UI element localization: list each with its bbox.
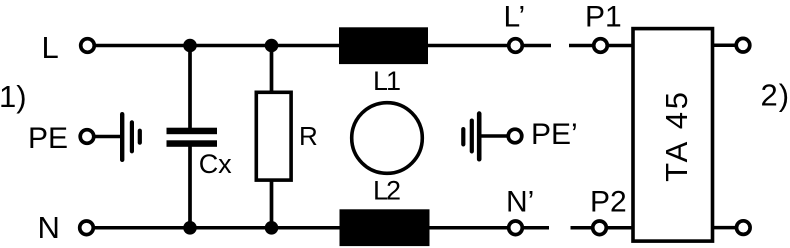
- wire PE' stub: [481, 134, 507, 138]
- terminal L: [81, 39, 95, 53]
- junction N/R: [265, 221, 279, 235]
- wire L line right of L1: [428, 44, 507, 48]
- inductor L2: [340, 209, 430, 246]
- ground PE (chassis, bars decreasing to the right): [120, 112, 142, 162]
- output terminal top: [736, 38, 750, 52]
- svg-text:P2: P2: [590, 186, 627, 219]
- wire P1 stub toward L': [569, 44, 592, 48]
- wire Cx branch lower: [188, 146, 192, 228]
- wire P1 to breaker box: [609, 44, 634, 48]
- circuit breaker TA 45 box: [633, 29, 713, 242]
- wire R branch lower: [270, 180, 274, 228]
- choke core circle: [352, 103, 423, 174]
- inductor L1: [339, 27, 428, 64]
- svg-text:L2: L2: [373, 176, 400, 206]
- wire L line left: [96, 44, 339, 48]
- svg-text:PE: PE: [28, 122, 68, 155]
- terminal PE: [80, 130, 94, 144]
- wire PE stub: [95, 135, 122, 139]
- output terminal bottom: [737, 221, 751, 235]
- resistor R: [256, 92, 291, 180]
- wire P2 stub toward N': [571, 226, 592, 230]
- wire N line right of L2: [429, 226, 507, 230]
- terminal L': [509, 39, 523, 53]
- wire L' stub toward P1: [524, 44, 551, 48]
- wire N' stub toward P2: [524, 226, 549, 230]
- wire breaker box to output top terminal: [712, 43, 735, 47]
- svg-text:TA 45: TA 45: [659, 89, 694, 182]
- svg-text:L: L: [42, 30, 59, 65]
- svg-text:L1: L1: [373, 66, 400, 96]
- svg-text:Cx: Cx: [199, 149, 232, 179]
- terminal P1: [594, 39, 608, 53]
- wire N line left: [95, 226, 340, 230]
- terminal N': [509, 221, 523, 235]
- capacitor Cx plates: [167, 128, 218, 147]
- junction L/Cx: [183, 39, 197, 53]
- ground PE' (chassis, bars decreasing to the left): [461, 111, 481, 161]
- svg-text:N’: N’: [506, 186, 534, 219]
- svg-text:PE’: PE’: [531, 118, 578, 151]
- wire P2 to breaker box: [608, 226, 634, 230]
- junction N/Cx: [183, 221, 197, 235]
- wire R branch upper: [270, 46, 274, 94]
- junction L/R: [265, 39, 279, 53]
- terminal PE': [508, 129, 522, 143]
- terminal P2: [593, 221, 607, 235]
- wire Cx branch upper: [188, 46, 192, 130]
- wire breaker box to output bottom terminal: [712, 226, 735, 230]
- terminal N: [80, 221, 94, 235]
- svg-text:2): 2): [761, 78, 790, 113]
- svg-text:P1: P1: [585, 1, 622, 34]
- svg-text:R: R: [299, 121, 318, 151]
- svg-text:N: N: [38, 210, 60, 245]
- svg-text:L’: L’: [504, 1, 526, 34]
- svg-text:1): 1): [0, 79, 27, 114]
